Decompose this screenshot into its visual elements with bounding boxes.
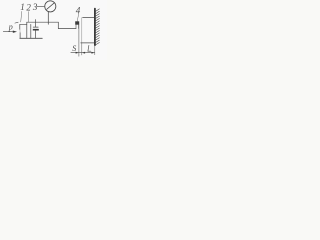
throttle lower wire [35, 30, 37, 38]
throttle R2 stub [35, 20, 37, 27]
base line [20, 37, 43, 39]
extension L right [94, 45, 96, 55]
svg-text:1: 1 [20, 2, 25, 12]
dim arrow L right [91, 52, 94, 54]
wall W1 [94, 9, 96, 46]
gauge stem [47, 12, 49, 24]
throttle plate top [33, 26, 38, 28]
nozzle left leg [75, 25, 77, 29]
wire pipe upper [27, 21, 59, 23]
leader 4 [77, 14, 79, 21]
svg-text:S: S [72, 44, 76, 53]
part top edge [83, 17, 95, 19]
leader 1 [21, 11, 22, 22]
extension S left [78, 25, 80, 57]
leader tick node A [15, 21, 18, 24]
dimension line [71, 52, 95, 54]
dim arrow L left [82, 52, 85, 54]
nozzle right leg [78, 25, 80, 29]
wire pipe drop [57, 22, 59, 28]
part bottom edge [81, 42, 95, 44]
leader 3 [37, 5, 44, 7]
label L [88, 45, 91, 51]
box left edge faint middle [19, 30, 21, 33]
extension S right [81, 43, 83, 55]
arrow p (inlet) [3, 31, 13, 33]
dim arrow S [76, 52, 79, 54]
gauge U3 circle [45, 1, 56, 12]
svg-text:4: 4 [76, 6, 81, 16]
filter unit U1 box [20, 24, 31, 38]
gauge needle [47, 3, 54, 9]
nozzle Q4 body [75, 21, 79, 24]
throttle plate bottom [33, 29, 39, 31]
box divider [26, 22, 28, 38]
part left face [81, 18, 83, 43]
svg-text:2: 2 [26, 3, 31, 13]
wall hatching [96, 9, 100, 45]
svg-text:p: p [8, 22, 13, 31]
leader 2 [27, 12, 29, 22]
wire pipe lower [58, 28, 76, 30]
